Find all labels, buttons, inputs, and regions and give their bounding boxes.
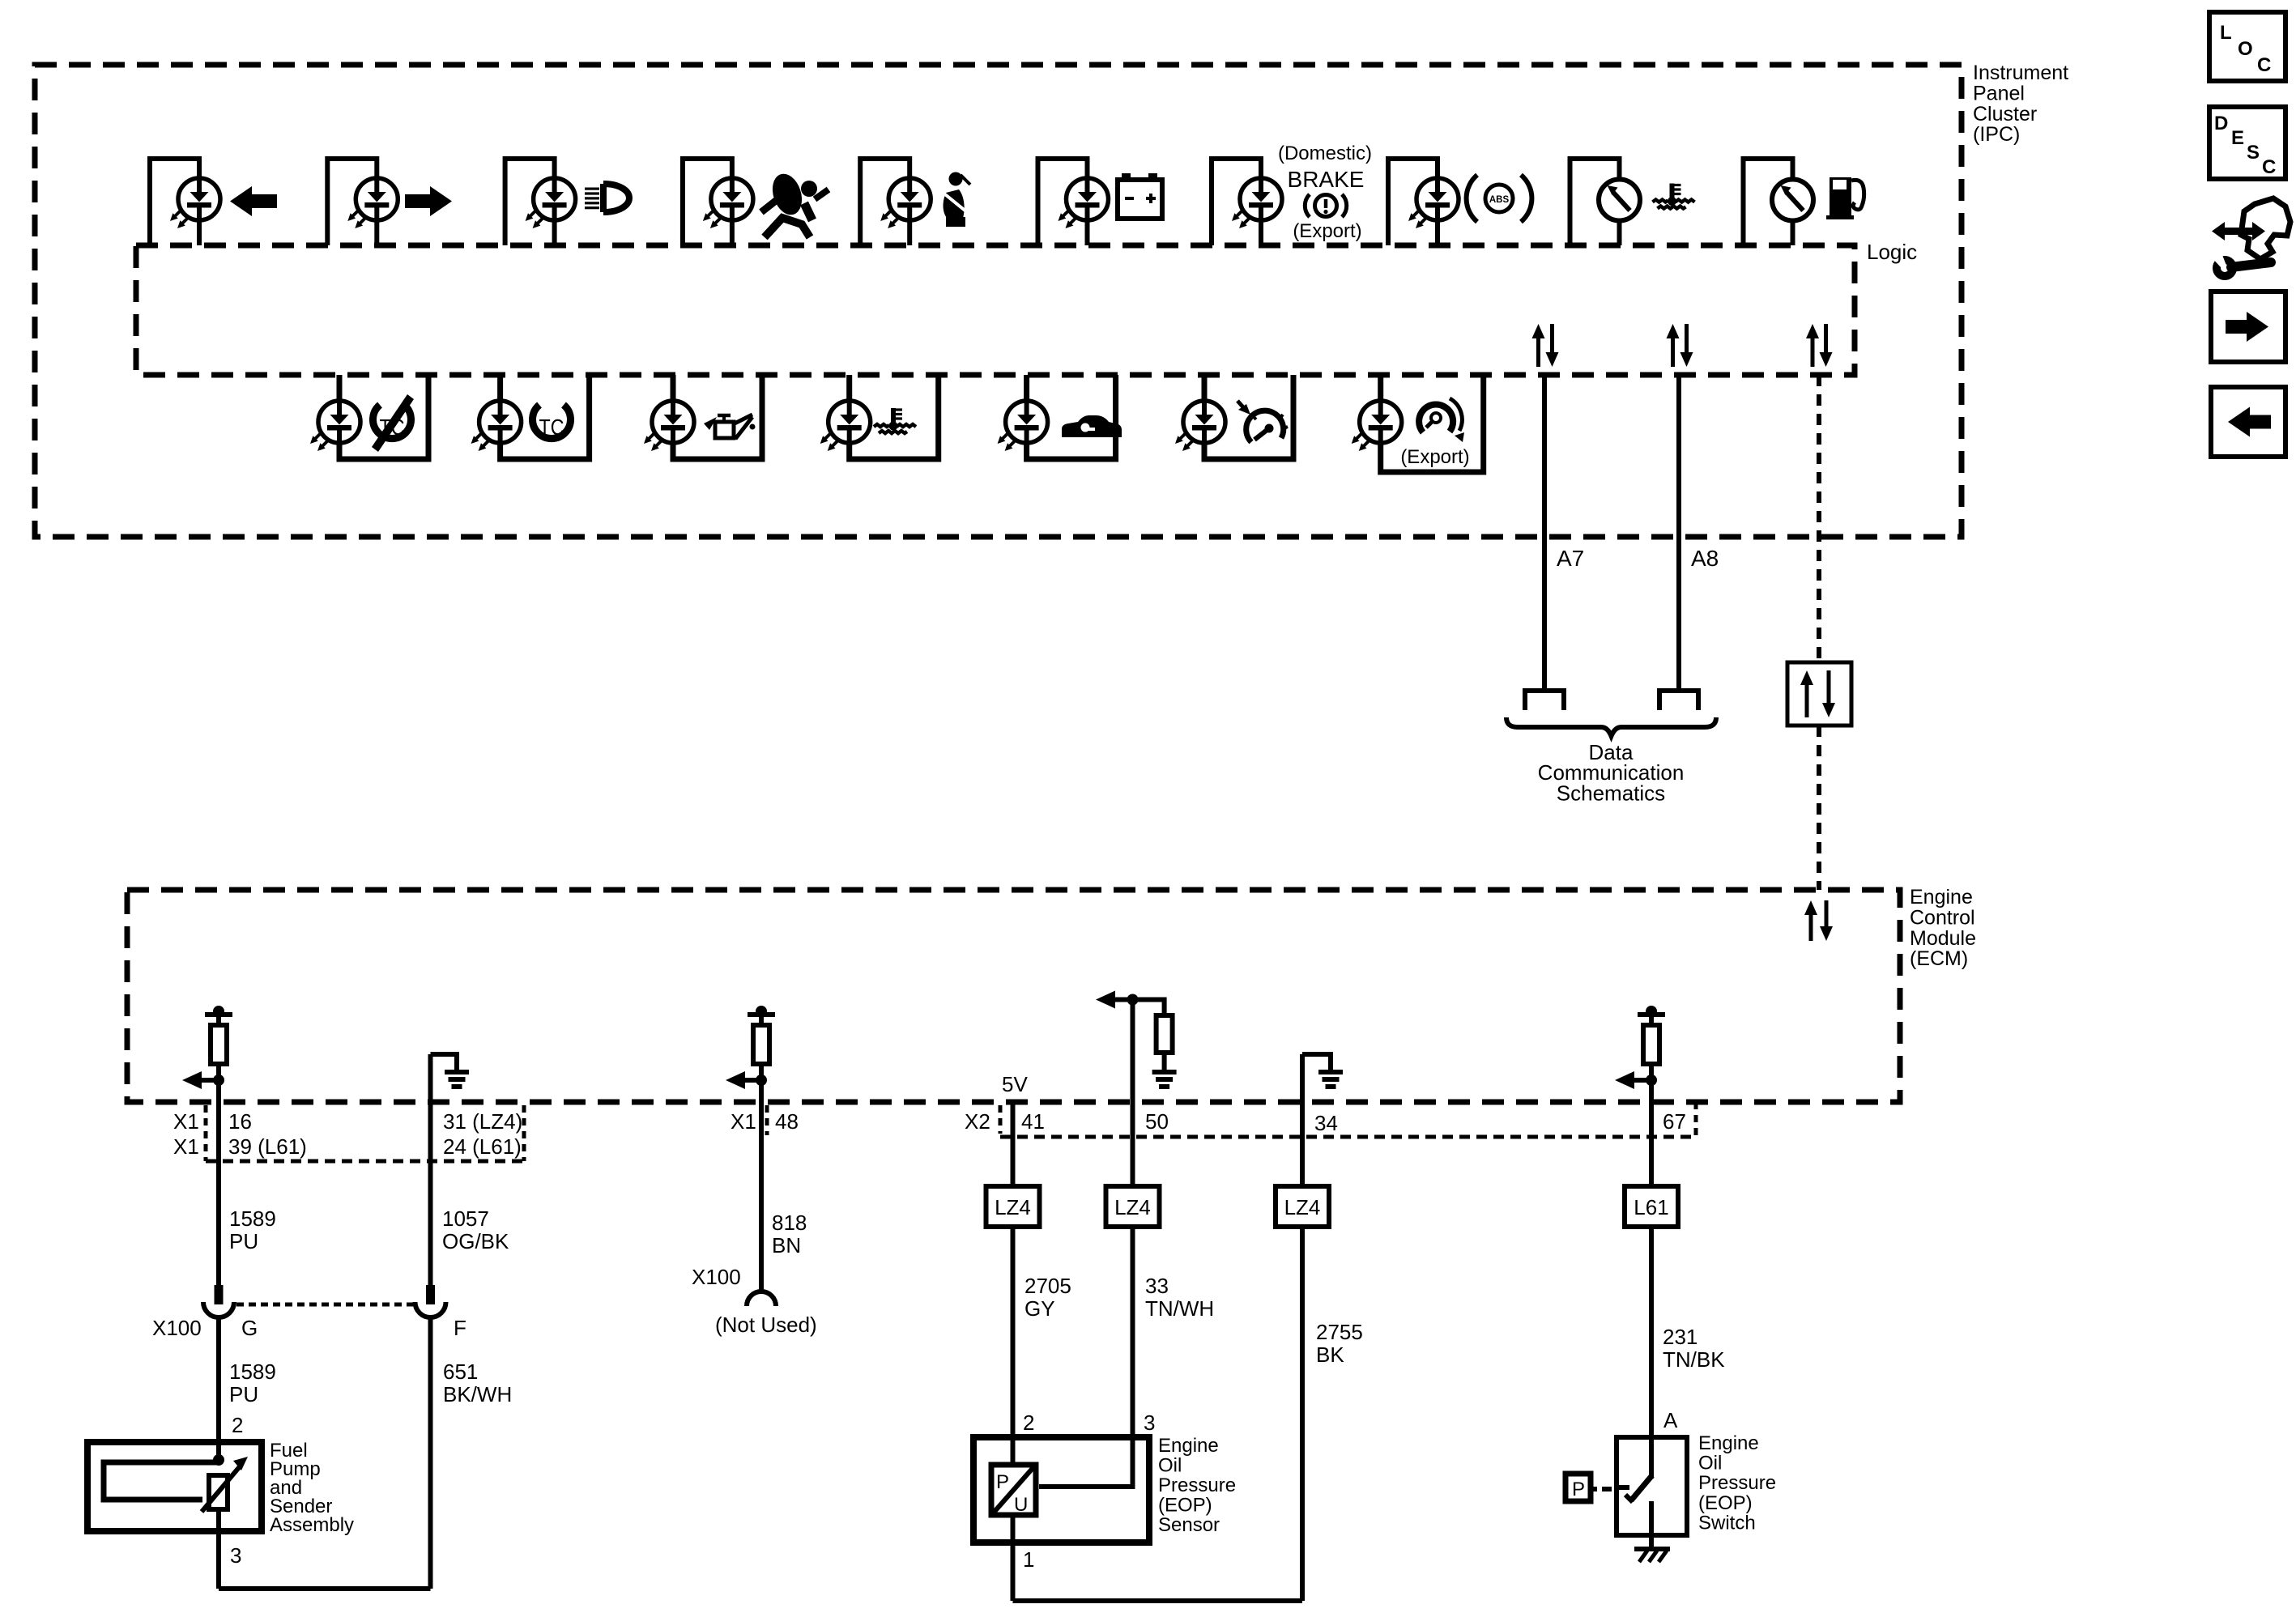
left turn indicator LED — [150, 159, 220, 245]
reduced power (speedometer) icon — [1237, 401, 1288, 442]
svg-text:TN/BK: TN/BK — [1663, 1347, 1725, 1372]
cruise (Export) icon — [1419, 398, 1464, 442]
svg-text:BRAKE: BRAKE — [1288, 167, 1365, 192]
wire 2755 BK down — [1300, 1227, 1305, 1601]
sender variable resistor — [209, 1475, 228, 1509]
svg-text:Instrument: Instrument — [1973, 62, 2068, 84]
fuel pump icon — [1826, 177, 1864, 219]
svg-text:2: 2 — [1023, 1411, 1034, 1435]
svg-text:C: C — [2262, 156, 2276, 178]
traction control off indicator LED — [310, 375, 428, 459]
svg-text:BN: BN — [772, 1233, 801, 1257]
coolant temperature icon 2 — [874, 408, 916, 433]
wire pump bottom link — [219, 1586, 431, 1591]
right turn indicator LED — [327, 159, 398, 245]
wire F down — [428, 1316, 433, 1589]
svg-text:2705: 2705 — [1024, 1274, 1071, 1298]
oil pressure indicator LED — [644, 375, 762, 459]
wire pin 67 — [1649, 1064, 1654, 1186]
chassis ground EOP switch — [1634, 1535, 1670, 1562]
wire 33 TN/WH label — [1145, 1274, 1214, 1321]
svg-text:(Export): (Export) — [1400, 446, 1469, 468]
brake warning icon — [1305, 194, 1346, 217]
svg-text:P: P — [996, 1471, 1009, 1493]
svg-text:Pressure: Pressure — [1698, 1472, 1776, 1494]
svg-text:OG/BK: OG/BK — [442, 1229, 509, 1253]
pull-up resistor pin48 — [726, 1006, 775, 1102]
Fuel Pump and Sender Assembly box — [87, 1442, 262, 1531]
traction control icon — [532, 405, 570, 440]
fuel gauge — [1744, 159, 1814, 245]
traction control indicator LED — [471, 375, 590, 459]
wire pin3 inside sensor — [1039, 1437, 1133, 1487]
svg-text:L: L — [2220, 22, 2232, 44]
reduced power indicator LED — [1175, 375, 1293, 459]
coolant temperature gauge — [1570, 159, 1641, 245]
svg-text:(Not Used): (Not Used) — [715, 1313, 817, 1337]
svg-text:5V: 5V — [1002, 1072, 1028, 1096]
svg-text:Engine: Engine — [1910, 886, 1973, 908]
back arrow icon box — [2211, 387, 2285, 457]
svg-text:50: 50 — [1145, 1109, 1169, 1134]
ECM serial data arrows — [1804, 900, 1833, 941]
svg-text:A7: A7 — [1557, 546, 1584, 571]
oil pressure icon — [704, 415, 756, 439]
svg-text:LZ4: LZ4 — [995, 1195, 1031, 1219]
sender wiper arrow — [202, 1457, 248, 1512]
svg-text:34: 34 — [1314, 1111, 1338, 1135]
svg-text:(ECM): (ECM) — [1910, 947, 1968, 970]
wire G to fuel pump pin 2 — [216, 1316, 221, 1460]
svg-text:(Domestic): (Domestic) — [1278, 143, 1372, 164]
pull-up resistor pin16 — [182, 1006, 232, 1102]
wire 231 TN/BK to EOP switch — [1649, 1227, 1654, 1479]
connector repair icon — [2212, 198, 2290, 276]
right turn arrow icon — [405, 186, 452, 216]
svg-text:1: 1 — [1023, 1547, 1034, 1572]
svg-text:LZ4: LZ4 — [1284, 1195, 1321, 1219]
svg-text:X2: X2 — [965, 1109, 990, 1134]
fuel pump float loop — [104, 1462, 217, 1500]
wire pin 34 — [1300, 1054, 1305, 1186]
svg-text:PU: PU — [229, 1382, 258, 1406]
svg-text:33: 33 — [1145, 1274, 1169, 1298]
P parameter box — [1565, 1474, 1612, 1501]
IPC serial data arrows A7 — [1532, 324, 1559, 367]
svg-text:Assembly: Assembly — [270, 1514, 354, 1536]
wire 2755 BK label — [1316, 1320, 1363, 1367]
security indicator LED — [998, 375, 1116, 459]
svg-text:U: U — [1014, 1494, 1028, 1516]
wire pin 50 — [1131, 1000, 1135, 1187]
IPC label — [1973, 62, 2068, 146]
ABS indicator icon — [1467, 175, 1532, 222]
svg-text:3: 3 — [230, 1543, 241, 1568]
svg-text:(IPC): (IPC) — [1973, 123, 2020, 146]
net LZ4 box 2 — [1106, 1186, 1160, 1227]
wire pin2 through sensor — [1011, 1437, 1016, 1601]
wire resistor to ground — [1162, 1053, 1167, 1067]
pin 34 ground link — [1302, 1054, 1331, 1067]
svg-text:Oil: Oil — [1698, 1453, 1722, 1474]
wire pin 31 — [428, 1054, 433, 1285]
cruise (Export) indicator LED — [1352, 375, 1484, 472]
wire 231 TN/BK label — [1663, 1325, 1725, 1372]
svg-text:A8: A8 — [1691, 546, 1719, 571]
svg-text:(Export): (Export) — [1293, 220, 1361, 242]
Engine Oil Pressure Switch box — [1617, 1437, 1687, 1535]
pull-up resistor pin50 — [1157, 1015, 1173, 1053]
forward arrow icon box — [2211, 291, 2285, 362]
svg-text:Cluster: Cluster — [1973, 103, 2037, 126]
svg-text:Logic: Logic — [1867, 240, 1917, 264]
svg-text:BK/WH: BK/WH — [443, 1382, 512, 1406]
net LZ4 box 3 — [1276, 1186, 1329, 1227]
left turn arrow icon — [230, 186, 277, 216]
terminal A8 — [1659, 691, 1698, 710]
brace Data Communication — [1506, 717, 1716, 736]
wire 651 BK/WH label — [443, 1360, 512, 1406]
svg-text:231: 231 — [1663, 1325, 1698, 1349]
wire 1057 OG/BK label — [442, 1206, 509, 1253]
svg-text:LZ4: LZ4 — [1114, 1195, 1151, 1219]
wire 2705 GY to EOP sensor — [1011, 1227, 1016, 1437]
svg-text:C: C — [2257, 54, 2271, 76]
svg-text:(EOP): (EOP) — [1698, 1492, 1753, 1514]
high beam indicator LED — [505, 159, 576, 245]
Engine Control Module (ECM) dashed box — [127, 890, 1900, 1102]
wire pin 41 — [1011, 1102, 1016, 1186]
ground pin31 — [445, 1067, 469, 1087]
svg-text:Control: Control — [1910, 906, 1975, 929]
dashed serial data wire lower — [1817, 726, 1821, 890]
pin 31 ground link — [431, 1054, 458, 1067]
svg-text:2: 2 — [232, 1413, 243, 1437]
svg-text:L61: L61 — [1634, 1195, 1668, 1219]
svg-text:39 (L61): 39 (L61) — [228, 1134, 307, 1159]
svg-text:TC: TC — [539, 415, 564, 440]
svg-text:Engine: Engine — [1698, 1432, 1759, 1454]
svg-text:P: P — [1572, 1479, 1585, 1500]
sender junction dot — [213, 1454, 224, 1466]
IPC serial data arrows A8 — [1667, 324, 1693, 367]
coolant temperature icon — [1653, 184, 1695, 209]
wire pin 48 to X100 — [759, 1064, 764, 1286]
switch blade — [1617, 1437, 1652, 1535]
svg-text:Panel: Panel — [1973, 82, 2025, 104]
svg-text:818: 818 — [772, 1211, 807, 1235]
Engine Oil Pressure Sensor label — [1158, 1435, 1236, 1536]
ground pin50 resistor — [1152, 1067, 1177, 1087]
battery indicator LED — [1038, 159, 1109, 245]
wire 1589 PU lower label — [229, 1360, 276, 1406]
svg-text:ABS: ABS — [1489, 195, 1510, 205]
svg-text:BK: BK — [1316, 1343, 1344, 1367]
net L61 box — [1625, 1186, 1678, 1227]
Data Communication Schematics label — [1538, 740, 1685, 805]
connector X100 pin F — [415, 1285, 446, 1317]
security (vehicle) icon — [1062, 415, 1122, 437]
coolant temperature indicator LED — [820, 375, 939, 459]
wire 818 BN label — [772, 1211, 807, 1257]
traction control off icon — [372, 394, 414, 452]
airbag indicator LED — [683, 159, 753, 245]
svg-text:E: E — [2231, 127, 2244, 149]
svg-text:Sensor: Sensor — [1158, 1514, 1220, 1536]
airbag indicator icon — [761, 170, 829, 237]
Logic dashed box — [136, 245, 1855, 375]
serial data box arrows — [1800, 670, 1835, 717]
ABS indicator LED — [1388, 159, 1459, 245]
svg-text:651: 651 — [443, 1360, 478, 1384]
svg-text:31 (LZ4): 31 (LZ4) — [443, 1109, 522, 1134]
svg-text:GY: GY — [1024, 1296, 1055, 1321]
svg-text:48: 48 — [775, 1109, 799, 1134]
Fuel Pump and Sender Assembly label — [270, 1440, 354, 1536]
svg-text:67: 67 — [1663, 1109, 1686, 1134]
svg-text:Module: Module — [1910, 927, 1976, 950]
high beam icon — [585, 184, 629, 212]
seat belt indicator icon — [941, 172, 970, 228]
svg-text:Oil: Oil — [1158, 1455, 1182, 1477]
svg-text:Switch: Switch — [1698, 1512, 1756, 1534]
svg-text:X100: X100 — [152, 1316, 202, 1340]
X1 connector dotted box — [206, 1105, 524, 1161]
Engine Oil Pressure Switch label — [1698, 1432, 1776, 1534]
Instrument Panel Cluster (IPC) dashed box — [35, 65, 1962, 537]
svg-text:2755: 2755 — [1316, 1320, 1363, 1344]
DESC icon box — [2209, 107, 2285, 179]
dashed serial data wire upper — [1817, 375, 1821, 662]
svg-text:1589: 1589 — [229, 1206, 276, 1231]
svg-text:X1: X1 — [173, 1134, 199, 1159]
svg-text:(EOP): (EOP) — [1158, 1495, 1212, 1517]
connector X100 not used — [747, 1291, 776, 1306]
P/U transducer box — [991, 1465, 1036, 1516]
svg-text:41: 41 — [1021, 1109, 1045, 1134]
wire 818 BN lower — [759, 1102, 764, 1292]
svg-text:24 (L61): 24 (L61) — [443, 1134, 522, 1159]
wire 1589 PU upper label — [229, 1206, 276, 1253]
svg-text:D: D — [2214, 113, 2228, 134]
wire pin 16 to X100 — [216, 1064, 221, 1285]
svg-text:TN/WH: TN/WH — [1145, 1296, 1214, 1321]
svg-text:PU: PU — [229, 1229, 258, 1253]
svg-text:F: F — [454, 1316, 466, 1340]
svg-text:X1: X1 — [731, 1109, 756, 1134]
svg-text:A: A — [1663, 1408, 1678, 1432]
X1 mid dotted mark — [765, 1105, 769, 1135]
pull-up resistor pin67 — [1615, 1006, 1665, 1102]
svg-text:X100: X100 — [692, 1265, 741, 1289]
wire 33 TN/WH to EOP sensor — [1131, 1227, 1135, 1437]
svg-text:Schematics: Schematics — [1557, 781, 1665, 805]
ground pin34 — [1318, 1067, 1343, 1087]
seat belt indicator LED — [860, 159, 931, 245]
svg-text:16: 16 — [228, 1109, 252, 1134]
wire resistor to pin 3 — [216, 1509, 221, 1589]
Engine Oil Pressure Sensor box — [973, 1437, 1149, 1543]
serial data box — [1787, 662, 1851, 726]
connector X100 pin G — [203, 1285, 234, 1317]
brake indicator LED — [1212, 159, 1282, 245]
X2 dotted box — [1000, 1102, 1696, 1137]
X100 dashed link — [236, 1303, 413, 1307]
wire sensor bottom link — [1013, 1598, 1303, 1603]
svg-text:Pressure: Pressure — [1158, 1474, 1236, 1496]
wire A8 serial data — [1676, 375, 1681, 691]
svg-text:3: 3 — [1144, 1411, 1155, 1435]
wire A7 serial data — [1542, 375, 1547, 691]
ECM label — [1910, 886, 1976, 970]
svg-text:X1: X1 — [173, 1109, 199, 1134]
IPC serial data arrows class2 — [1806, 324, 1833, 367]
battery indicator icon — [1118, 173, 1162, 219]
pin 50 signal arrow and junction — [1096, 991, 1165, 1016]
terminal A7 — [1525, 691, 1564, 710]
svg-text:O: O — [2238, 38, 2253, 60]
svg-text:1589: 1589 — [229, 1360, 276, 1384]
svg-text:Engine: Engine — [1158, 1435, 1219, 1457]
net LZ4 box 1 — [986, 1186, 1040, 1227]
LOC icon box — [2209, 12, 2285, 81]
svg-text:G: G — [241, 1316, 258, 1340]
svg-text:1057: 1057 — [442, 1206, 489, 1231]
svg-text:S: S — [2247, 142, 2260, 164]
wire 2705 GY label — [1024, 1274, 1071, 1321]
